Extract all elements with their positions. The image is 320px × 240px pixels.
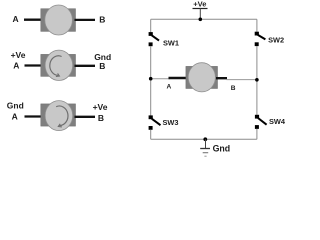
wire left rail upper	[150, 19, 152, 33]
svg-text:B: B	[99, 61, 105, 71]
junction dot (left rail / mid rail)	[149, 77, 153, 81]
svg-text:+Ve: +Ve	[93, 102, 108, 112]
svg-text:SW4: SW4	[269, 117, 286, 126]
junction dot (+Ve / top rail)	[199, 18, 203, 22]
wire right rail middle	[256, 46, 258, 117]
wire (motor 1 terminal B)	[75, 19, 96, 21]
switch SW4	[255, 115, 267, 129]
wire (motor 1 terminal A)	[24, 19, 43, 21]
switch SW1	[149, 32, 159, 46]
svg-text:SW1: SW1	[163, 38, 179, 47]
wire right rail lower	[256, 129, 258, 140]
svg-text:Gnd: Gnd	[213, 144, 231, 154]
ground symbol	[200, 139, 210, 156]
svg-text:A: A	[13, 14, 19, 24]
wire mid rail right segment	[227, 79, 257, 81]
wire (motor 2 terminal B)	[75, 65, 96, 67]
motor M1 body	[41, 5, 76, 35]
svg-text:SW3: SW3	[163, 118, 179, 127]
wire left rail middle	[150, 46, 152, 117]
junction dot (right rail / mid rail)	[255, 78, 259, 82]
switch SW3	[149, 115, 161, 129]
wire mid rail left segment	[151, 78, 170, 80]
rotation arrow CCW (motor 2)	[50, 56, 62, 77]
wire (motor 3 terminal B)	[75, 116, 96, 118]
rotation arrow CW (motor 3)	[56, 106, 68, 127]
wire (bridge motor terminal B)	[216, 77, 227, 79]
svg-text:B: B	[231, 85, 236, 92]
svg-text:+Ve: +Ve	[193, 0, 206, 8]
wire (bridge motor terminal A)	[169, 77, 189, 79]
svg-text:B: B	[99, 15, 105, 25]
wire bottom rail	[151, 138, 257, 140]
+Ve supply symbol (H-bridge top)	[193, 0, 208, 19]
svg-text:+Ve: +Ve	[11, 50, 26, 60]
switch SW2	[255, 32, 266, 46]
junction dot (bottom rail / ground)	[203, 137, 207, 141]
wire (motor 3 terminal A)	[25, 115, 44, 117]
wire left rail lower	[150, 130, 152, 140]
wire (motor 2 terminal A)	[25, 64, 44, 66]
svg-text:B: B	[98, 113, 104, 123]
svg-text:A: A	[167, 83, 172, 90]
svg-text:A: A	[12, 112, 18, 122]
svg-text:Gnd: Gnd	[7, 101, 24, 111]
motor M3 body	[41, 101, 76, 131]
svg-text:A: A	[13, 61, 19, 71]
motor M2 body	[41, 50, 76, 80]
svg-text:SW2: SW2	[268, 36, 284, 45]
wire right rail upper	[256, 19, 258, 33]
wire top rail	[151, 18, 257, 20]
motor M body (bridge)	[186, 63, 218, 92]
